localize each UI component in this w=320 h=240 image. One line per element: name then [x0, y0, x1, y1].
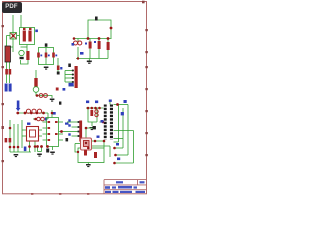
- ground GND8: [90, 127, 95, 130]
- common-mode choke L1 body: [20, 28, 35, 45]
- ground GND2: [44, 67, 49, 70]
- ground pin tick: [46, 149, 49, 153]
- connector SV1 pin pads: [72, 70, 74, 83]
- net arrow VCC: [16, 101, 21, 112]
- junction R4 top: [98, 37, 101, 40]
- snubber network box: [39, 48, 54, 65]
- junction output net 1: [113, 147, 116, 150]
- resistor R7: [9, 138, 12, 142]
- junction at rail left end: [73, 37, 76, 40]
- opto-coupler IC2: [27, 127, 39, 142]
- capacitor C2: [26, 51, 29, 60]
- connector SV2 body: [79, 121, 82, 142]
- junction Q1 gate: [85, 127, 88, 130]
- value label near L1: [35, 30, 38, 33]
- connector SV1 body: [75, 66, 78, 88]
- ground GND1: [87, 59, 92, 64]
- junction on loop right leg: [110, 27, 113, 30]
- capacitor C7 with wire: [38, 147, 42, 152]
- wire: IC2 bus verticals: [10, 120, 42, 152]
- diode D1 with wire: [57, 58, 60, 72]
- junction output net 2: [114, 154, 117, 157]
- resistor R3: [89, 42, 92, 49]
- ground tick below SV2: [66, 138, 69, 141]
- name label IC1: [53, 112, 56, 115]
- capacitor C8: [95, 110, 98, 117]
- connector SV2 pin pads: [78, 121, 80, 137]
- net label at IC2 output: [24, 147, 27, 152]
- value labels HV cluster: [72, 41, 97, 55]
- junction IC1 lower pin: [46, 145, 49, 148]
- junction on bottom rail: [77, 57, 79, 59]
- capacitor C9: [84, 150, 87, 156]
- capacitor C1: [19, 50, 24, 59]
- capacitor C6: [52, 53, 55, 58]
- resistor R6: [5, 138, 8, 142]
- net labels SV2 pins: [65, 119, 71, 135]
- MOSFET Q1: [81, 138, 92, 150]
- capacitor C3: [33, 78, 39, 92]
- connector SV1 pin wires: [65, 71, 74, 87]
- ground GND6: [50, 152, 55, 155]
- net labels TR1 area: [86, 100, 127, 161]
- value label D1: [60, 67, 62, 70]
- no-connect tick on HV loop: [95, 17, 98, 21]
- capacitor C10: [94, 152, 97, 158]
- name label SV1: [69, 83, 74, 87]
- wire: AC input net segments: [7, 15, 37, 96]
- choke L1 windings: [23, 28, 32, 42]
- wire: DC bus to L4: [18, 113, 49, 119]
- junction Q1 drain: [94, 140, 97, 143]
- junction IC1 supply pin: [51, 112, 54, 115]
- varistor RV1: [10, 33, 17, 40]
- connector SV2 pin wires: [59, 122, 80, 136]
- inductor L3: [39, 94, 47, 98]
- junction output box top: [87, 147, 90, 150]
- junctions IC2 bus: [9, 127, 37, 149]
- resistor R5: [107, 42, 110, 50]
- wire: sense net: [36, 96, 52, 99]
- net arrow at F2: [45, 117, 48, 121]
- ground GND9: [86, 163, 91, 168]
- ground GND7: [37, 154, 42, 157]
- capacitor C4: [37, 53, 40, 58]
- junction F2 left: [34, 118, 37, 121]
- junction C7 left: [36, 145, 39, 148]
- net label AC-L: [5, 84, 8, 92]
- capacitor C5: [45, 53, 48, 58]
- wire: MOSFET drain/source nets and output box: [75, 128, 110, 163]
- junction IC1 right pin: [60, 130, 63, 133]
- value labels C4 C5 C6: [40, 55, 57, 57]
- no-connect tick above snubber box: [45, 43, 48, 46]
- name label IC2: [27, 123, 30, 125]
- ground GND5: [14, 154, 19, 157]
- fuse F2: [37, 117, 45, 121]
- junction R5 top: [107, 37, 110, 40]
- controller IC1 body and pins: [43, 110, 64, 150]
- ground GND4: [50, 99, 55, 102]
- junction drain net right: [103, 140, 106, 143]
- transformer TR1 windings: [104, 104, 114, 140]
- junction source net: [77, 151, 79, 153]
- IC1 pin marks: [48, 121, 58, 141]
- resistor R1: [5, 69, 8, 75]
- diode D2: [90, 110, 93, 116]
- fuse F1: [5, 46, 11, 62]
- junction C7 right: [40, 145, 43, 148]
- junction L3 left: [36, 94, 39, 97]
- value label SV1: [63, 88, 66, 91]
- wire: primary and secondary nets of TR1: [86, 101, 134, 164]
- value label Q1: [97, 136, 100, 138]
- inductor L2: [74, 41, 82, 45]
- junctions on DC bus: [16, 112, 44, 115]
- no-connect tick above SV1: [68, 64, 71, 68]
- junction secondary top: [116, 103, 119, 106]
- ground GND3 below D1: [57, 72, 60, 75]
- junction output net 3: [113, 162, 116, 165]
- test point TP2: [56, 88, 59, 91]
- net label AC-N: [9, 84, 12, 92]
- inductor L4: [26, 109, 41, 113]
- no-connect tick above IC1: [59, 102, 61, 105]
- wire: HV bus loop and rails: [74, 20, 112, 59]
- resistor R4: [98, 41, 101, 49]
- junction R3 top: [87, 37, 90, 40]
- resistor R2: [9, 69, 12, 75]
- no-connect tick above Q1: [93, 126, 96, 129]
- junctions on primary rail: [87, 107, 105, 124]
